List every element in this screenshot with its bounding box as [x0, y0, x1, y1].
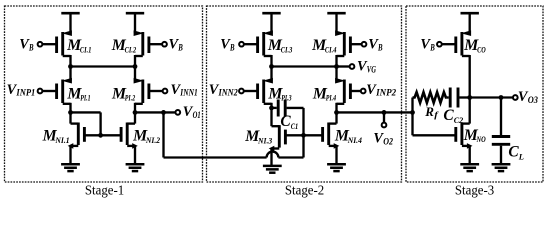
wire CC1/gate node vertical — [302, 108, 304, 158]
label MPI.2 — [111, 85, 136, 102]
wire tail node stage-2 — [272, 65, 337, 67]
terminal VO3 — [513, 95, 518, 100]
svg-text:NI.2: NI.2 — [145, 135, 161, 145]
transistor MCI.1 — [57, 13, 72, 66]
svg-text:B: B — [429, 43, 434, 53]
label VINP2 — [366, 82, 396, 98]
label MCI.1 — [66, 37, 91, 54]
terminal VINP2 — [350, 89, 365, 94]
resistor Rf — [413, 92, 447, 103]
wire MNO gate — [413, 112, 456, 135]
transistor MNI.1 — [68, 112, 85, 164]
label VB stage-1 left — [19, 37, 33, 54]
supply VDD stage-3 — [461, 12, 479, 15]
label MCO — [463, 37, 486, 54]
wire node A up to Rf — [411, 98, 413, 113]
terminal VO2 — [382, 123, 387, 128]
label MCI.4 — [311, 37, 337, 54]
label MNI.1 — [42, 127, 70, 144]
label MNO — [463, 127, 486, 144]
ground under MNI.4 — [327, 164, 346, 171]
svg-text:L: L — [518, 151, 524, 161]
terminal VB stage-3 — [437, 42, 456, 47]
terminal VVG — [350, 64, 355, 69]
label VVG — [357, 59, 376, 76]
transistor MCI.2 — [134, 13, 149, 66]
node dot MPI.3 drain / CC1 — [269, 106, 274, 111]
capacitor CL — [492, 98, 510, 165]
terminal VINN2 — [239, 89, 258, 94]
terminal VB stage-1 left — [38, 42, 57, 47]
supply VDD stage-2 right — [327, 12, 345, 15]
svg-text:NI.3: NI.3 — [257, 135, 273, 145]
terminal VINP1 — [38, 89, 57, 94]
label MCI.3 — [267, 37, 293, 54]
wire VO2 stub — [383, 112, 385, 122]
svg-text:INP2: INP2 — [375, 88, 396, 98]
ground under MNI.3 — [263, 166, 282, 173]
node dot MCI.2 drain — [133, 64, 138, 69]
label VB stage-3 — [420, 37, 434, 54]
svg-text:VG: VG — [367, 66, 376, 76]
ground under MNO — [460, 164, 479, 171]
label MCI.2 — [111, 37, 137, 54]
wire VO1 node — [135, 111, 176, 113]
label VINN1 — [171, 82, 198, 98]
caption Stage-2 — [285, 182, 324, 197]
ground under CL — [492, 164, 511, 171]
svg-text:INN2: INN2 — [218, 88, 239, 98]
transistor MPI.3 — [258, 67, 273, 108]
svg-text:O3: O3 — [528, 95, 538, 106]
node dot MNI.1 drain — [68, 110, 73, 115]
svg-text:CI.4: CI.4 — [325, 45, 337, 55]
wire gate mirror MNI.1-MNI.2 — [84, 134, 121, 136]
transistor MPI.4 — [335, 67, 350, 113]
svg-text:NI.1: NI.1 — [55, 135, 70, 145]
node dot MCI.3 drain — [269, 64, 274, 69]
node dot mirror gate junction — [98, 133, 103, 138]
label CC1 — [280, 113, 298, 131]
wire VO1 to stage-2 — [164, 112, 267, 157]
node dot MPI.2 drain — [133, 110, 138, 115]
transistor MPI.2 — [134, 67, 149, 113]
node dot MNI.4 drain — [334, 110, 339, 115]
svg-text:C1: C1 — [291, 121, 299, 131]
terminal VINN1 — [149, 89, 167, 94]
svg-text:R: R — [424, 104, 434, 119]
svg-text:CI.3: CI.3 — [281, 45, 293, 55]
svg-text:B: B — [28, 43, 33, 53]
label VO3 — [518, 89, 538, 106]
terminal VB stage-1 right — [149, 42, 167, 47]
transistor MCI.4 — [335, 13, 350, 66]
node dot VO1 branch — [161, 110, 166, 115]
svg-text:CI.1: CI.1 — [80, 45, 92, 55]
svg-text:O1: O1 — [193, 110, 201, 121]
label Rf — [424, 104, 439, 120]
transistor MNO — [456, 98, 473, 165]
wire output stage-2 — [337, 111, 413, 113]
transistor MCO — [456, 13, 471, 97]
node dot VO2 tap — [382, 110, 387, 115]
label VB stage-1 right — [169, 37, 183, 54]
label MPI.1 — [66, 85, 90, 102]
svg-text:PI.2: PI.2 — [125, 93, 136, 103]
transistor MNI.3 — [269, 108, 286, 166]
label CC2 — [443, 107, 463, 125]
wire VO3 node — [470, 96, 513, 98]
svg-text:O2: O2 — [383, 136, 393, 147]
svg-text:B: B — [229, 43, 234, 53]
label MNI.3 — [244, 128, 273, 145]
svg-text:Stage-3: Stage-3 — [455, 182, 495, 197]
label VB stage-2 right — [368, 37, 382, 54]
stage-3 dashed box — [406, 6, 543, 182]
transistor MPI.1 — [57, 67, 72, 113]
terminal VO1 — [175, 110, 180, 115]
svg-text:Stage-2: Stage-2 — [285, 182, 324, 197]
label MPI.4 — [312, 85, 337, 102]
transistor MNI.2 — [121, 112, 138, 164]
svg-text:INP1: INP1 — [15, 88, 35, 98]
svg-text:Stage-1: Stage-1 — [85, 182, 124, 197]
label VINN2 — [209, 82, 238, 98]
terminal VB stage-2 right — [350, 42, 366, 47]
supply VDD stage-2 left — [262, 12, 280, 15]
label MNI.4 — [334, 127, 363, 144]
node dot MCI.4 drain / VVG tap — [334, 64, 339, 69]
label VB stage-2 left — [220, 37, 234, 54]
svg-text:CI.2: CI.2 — [125, 45, 137, 55]
wire hop over MNI.3 ground — [267, 152, 304, 158]
svg-text:B: B — [178, 43, 183, 53]
caption Stage-1 — [85, 182, 124, 197]
node A input of stage-3 — [410, 110, 415, 115]
svg-text:PI.1: PI.1 — [80, 93, 90, 103]
node dot MCI.1 drain — [68, 64, 73, 69]
stage-2 dashed box — [207, 6, 402, 182]
ground under MNI.2 — [126, 164, 145, 171]
svg-text:NO: NO — [476, 134, 486, 144]
label MPI.3 — [267, 85, 292, 102]
wire tail node stage-1 — [71, 65, 136, 67]
supply VDD stage-1 left — [61, 12, 79, 15]
node dot gate junction stage-2 — [301, 133, 306, 138]
label VINP1 — [7, 82, 36, 98]
wire current-mirror drain tap — [71, 112, 101, 135]
caption Stage-3 — [455, 182, 495, 197]
capacitor CC2 — [447, 88, 470, 108]
capacitor CC1 — [272, 100, 304, 117]
svg-text:B: B — [377, 43, 382, 53]
terminal VB stage-2 left — [239, 42, 257, 47]
svg-text:NI.4: NI.4 — [347, 135, 363, 145]
transistor MNI.4 — [323, 112, 340, 164]
wire gate MNI.3-MNI.4 — [285, 134, 322, 136]
label CL — [508, 143, 524, 161]
supply VDD stage-1 right — [126, 12, 144, 15]
svg-text:PI.4: PI.4 — [326, 93, 337, 103]
transistor MCI.3 — [258, 13, 273, 66]
svg-text:CO: CO — [477, 45, 486, 55]
label VO1 — [183, 104, 201, 121]
node dot MCO drain / CC2 — [467, 95, 472, 100]
label VO2 — [373, 131, 393, 148]
ground under MNI.1 — [61, 164, 80, 171]
stage-1 dashed box — [5, 6, 203, 182]
label MNI.2 — [132, 127, 161, 144]
wire VVG tap — [337, 65, 350, 67]
svg-text:INN1: INN1 — [179, 88, 197, 98]
node dot CL tap — [499, 95, 504, 100]
